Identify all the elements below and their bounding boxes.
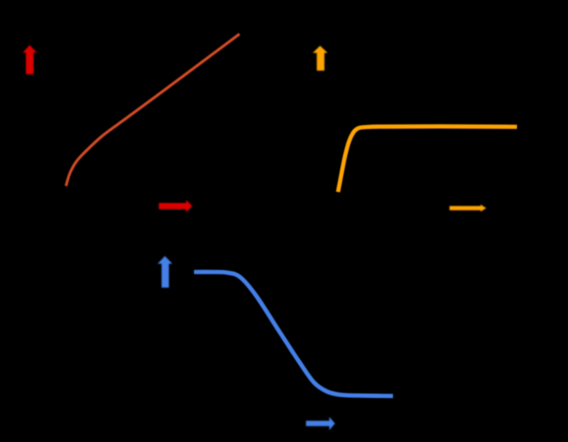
blue y-axis up arrow (graph 3) [158,256,173,288]
orange y-axis up arrow (graph 2) [313,46,328,71]
blue curve (graph 3, falling sigmoid) [194,272,393,396]
orange curve (graph 2, saturating) [338,126,517,192]
blue x-axis right arrow (graph 3) [306,417,335,430]
red x-axis right arrow (graph 1) [159,200,193,212]
red y-axis up arrow (graph 1) [23,45,37,74]
red curve (graph 1, rising sqrt-like) [66,34,240,186]
orange x-axis right arrow (graph 2) [450,205,487,212]
